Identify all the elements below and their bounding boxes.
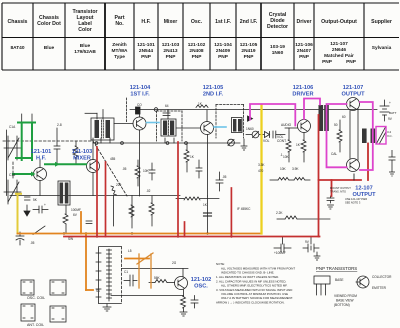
capacitor C13 [204, 212, 212, 214]
svg-text:2N408: 2N408 [189, 48, 203, 54]
svg-text:BASE: BASE [335, 278, 344, 282]
tone network right edge [391, 150, 393, 157]
svg-text:USE 121-107 PAIR: USE 121-107 PAIR [345, 197, 367, 201]
speaker SP1 magenta box [376, 127, 386, 145]
capacitor C8 small [86, 220, 92, 222]
wire magenta 2nd IF collector loop [250, 104, 295, 126]
wire Q8 emitter down + resistor R4 [183, 290, 185, 297]
svg-text:Driver: Driver [297, 19, 312, 25]
svg-text:Supplier: Supplier [371, 19, 392, 25]
dashed shield T2 [157, 111, 183, 141]
switch S2 on-off [33, 226, 45, 235]
svg-text:121-105: 121-105 [203, 85, 224, 91]
svg-text:2-8: 2-8 [57, 123, 62, 127]
svg-text:Color Dot: Color Dot [37, 21, 61, 27]
svg-text:455: 455 [110, 157, 116, 161]
wire T2 secondary to Q4 base [176, 127, 201, 129]
svg-text:121-103: 121-103 [72, 149, 93, 155]
svg-text:ALL OTHERS MMF. ELECTROLYTICS: ALL OTHERS MMF. ELECTROLYTICS NOTED MF. [221, 284, 288, 288]
svg-text:+: + [389, 101, 391, 105]
svg-text:PNP: PNP [218, 54, 229, 60]
wire green antenna to Q1 base [13, 164, 86, 174]
svg-text:1N60: 1N60 [272, 50, 284, 56]
detector diode CR1 [265, 132, 270, 138]
svg-text:10K: 10K [283, 155, 290, 159]
node dots on rails [63, 232, 233, 237]
resistor R2 diagonal near mixer [111, 186, 117, 195]
svg-text:Type: Type [114, 54, 125, 60]
capacitor C20 [129, 275, 131, 286]
transformer T3 3rd IF [232, 118, 243, 133]
svg-text:OUTPUT: OUTPUT [342, 92, 366, 98]
svg-text:AUDIO: AUDIO [281, 123, 292, 127]
svg-text:121-104: 121-104 [130, 85, 151, 91]
battery B1 9V [380, 100, 389, 121]
svg-text:Matched Pair: Matched Pair [324, 53, 354, 59]
wire Q3 emitter down [139, 130, 141, 196]
wire yellow B+ long vertical [260, 105, 262, 234]
cyan neutralizing arrows [147, 123, 227, 128]
wire misc left verticals [65, 205, 67, 214]
svg-text:MOUNT OUTPUT: MOUNT OUTPUT [330, 186, 351, 190]
svg-text:BATT: BATT [389, 111, 397, 115]
tuning gang C1B [4, 180, 21, 204]
resistor R8 vertical [184, 150, 189, 162]
svg-text:+100MF: +100MF [274, 251, 286, 255]
pin box IF bottom view 3 [21, 304, 35, 321]
svg-text:INDICATED TO CHASSIS GND. B- L: INDICATED TO CHASSIS GND. B- LINE. [221, 271, 275, 275]
svg-text:470: 470 [258, 169, 264, 173]
svg-text:MT/WA: MT/WA [112, 48, 129, 54]
svg-text:PNP TRANSISTORS: PNP TRANSISTORS [316, 266, 357, 271]
svg-text:.02: .02 [146, 189, 151, 193]
transistor Q4 2nd I.F. [201, 122, 214, 135]
svg-text:60: 60 [342, 115, 346, 119]
transistor Q3 1st I.F. [133, 117, 146, 130]
svg-text:2N407: 2N407 [297, 48, 311, 54]
svg-text:SW: SW [68, 237, 73, 241]
electrolytic C6 plus [33, 206, 48, 213]
wire AVC rail [93, 142, 240, 144]
oscillator coil orange [137, 253, 153, 288]
svg-text:No.: No. [115, 21, 124, 27]
pin box IF bottom view 4 [50, 306, 66, 322]
diode circle symbol [228, 139, 235, 146]
svg-text:10K: 10K [280, 167, 287, 171]
svg-text:C1A: C1A [9, 125, 16, 129]
svg-text:VOL: VOL [263, 139, 270, 143]
electrolytic C5 left [16, 232, 24, 245]
svg-text:ARROW ( → ) INDICATES CLOCKW: ARROW ( → ) INDICATES CLOCKWISE ROTATION… [216, 301, 285, 305]
transistor Q7 Output lower [347, 159, 360, 172]
svg-text:PNP: PNP [299, 54, 310, 60]
svg-text:121-103: 121-103 [162, 42, 180, 48]
capacitor C7 at Q3 collector [136, 107, 141, 114]
transistor Q8 Osc [175, 277, 188, 290]
ground under C17 [314, 252, 320, 260]
svg-text:1st I.F.: 1st I.F. [215, 19, 231, 25]
svg-text:ONLY A 9V BATTERY SOURCE FOR M: ONLY A 9V BATTERY SOURCE FOR MEASUREMENT… [221, 296, 293, 300]
svg-text:2ND I.F.: 2ND I.F. [203, 92, 224, 98]
svg-text:Osc.: Osc. [191, 19, 203, 25]
svg-text:3.9K: 3.9K [292, 167, 299, 171]
svg-text:Zenith: Zenith [112, 42, 126, 48]
svg-text:H.F.: H.F. [36, 156, 46, 162]
wire red emitter rail [64, 115, 368, 237]
svg-text:1. ALL RESISTORS 1/2 WATT UNL: 1. ALL RESISTORS 1/2 WATT UNLESS NOTED. [216, 275, 279, 279]
resistor R11 vertical driver bias [286, 140, 291, 152]
resistor chain R16 R17 at y 180 [278, 177, 289, 180]
svg-text:121-107: 121-107 [330, 41, 348, 47]
node on rail [154, 108, 158, 112]
svg-text:121-106: 121-106 [295, 42, 313, 48]
svg-text:2nd I.F.: 2nd I.F. [240, 19, 258, 25]
svg-text:3.3K: 3.3K [258, 163, 265, 167]
svg-text:COLLECTOR: COLLECTOR [372, 275, 392, 279]
wire output stage verticals [349, 111, 351, 159]
svg-text:OSC. COIL: OSC. COIL [27, 296, 45, 300]
dashed gang link [3, 141, 127, 196]
transformer T4 driver [319, 105, 329, 131]
wire orange B+ rail [18, 212, 262, 290]
node junctions on AVC rail [95, 142, 98, 145]
svg-text:OSC.: OSC. [194, 284, 208, 290]
capacitor C21 [191, 299, 198, 301]
wire Q3/T1 tops to rail [102, 110, 104, 120]
antenna coil L1 green [16, 123, 35, 161]
svg-text:.05: .05 [30, 241, 35, 245]
svg-text:PNP: PNP [192, 54, 203, 60]
svg-text:121-101: 121-101 [31, 149, 52, 155]
speaker SP1 diagonals [377, 127, 386, 144]
svg-text:MIXER: MIXER [73, 156, 91, 162]
resistor R3 horizontal to Q8 base [155, 280, 167, 283]
pin box IF bottom view 1 [21, 280, 34, 295]
COLORED WIRES [13, 99, 386, 291]
svg-text:L5: L5 [128, 249, 132, 253]
svg-text:S1: S1 [96, 289, 100, 293]
ground Q8 emitter [180, 312, 187, 316]
PNP legend package [314, 276, 330, 295]
svg-text:.05: .05 [122, 167, 127, 171]
resistor R1 vertical [75, 141, 77, 146]
svg-text:(BOTTOM): (BOTTOM) [334, 303, 350, 307]
wire Q2 emitter down [92, 173, 94, 196]
big coil L5 bottom-left box [96, 247, 121, 304]
svg-text:EMITTER: EMITTER [372, 286, 387, 290]
svg-text:1N60: 1N60 [246, 127, 254, 131]
transformer T1 1st IF [91, 118, 114, 140]
wire T1 secondary to Q3 base [114, 123, 133, 125]
capacitor C10 [196, 167, 202, 169]
wire Q1 collector up [39, 160, 41, 168]
wire top B- rail [130, 109, 377, 111]
AVC resistor R5 horizontal [184, 197, 200, 200]
transistor Q6 Output upper [347, 98, 360, 111]
wire left edge [5, 130, 7, 196]
svg-text:2N646: 2N646 [332, 47, 346, 53]
svg-text:TRANS. MTG: TRANS. MTG [330, 190, 346, 194]
svg-text:Color: Color [78, 27, 92, 33]
resistor R7 vertical [135, 166, 140, 178]
svg-text:2N544: 2N544 [139, 48, 153, 54]
PNP legend transistor symbol [357, 276, 369, 288]
svg-text:179/52AB: 179/52AB [74, 49, 96, 55]
coupling cap C14 [272, 131, 274, 138]
wire magenta driver collector [304, 99, 320, 120]
svg-text:NOTE:: NOTE: [216, 262, 225, 266]
svg-text:8AT40: 8AT40 [10, 45, 24, 51]
svg-text:C1: C1 [124, 270, 128, 274]
svg-text:PNP: PNP [322, 59, 333, 65]
svg-text:220: 220 [116, 183, 122, 187]
antenna stub [21, 114, 23, 122]
svg-text:Chassis: Chassis [8, 19, 28, 25]
resistor R6 vertical mid band [129, 205, 134, 217]
svg-text:+: + [44, 203, 46, 207]
wire Q4 emitter to B+ rail [207, 196, 209, 234]
battery icon C17 [303, 244, 319, 252]
svg-text:100MF: 100MF [71, 208, 81, 212]
svg-text:DRIVER: DRIVER [292, 92, 313, 98]
capacitor C18 under output [327, 197, 334, 199]
svg-text:121-107: 121-107 [343, 85, 364, 91]
capacitor C12 AVC [216, 179, 223, 181]
svg-text:Blue: Blue [80, 43, 91, 49]
svg-text:ANT. COIL: ANT. COIL [27, 323, 44, 327]
svg-text:BASE VIEW: BASE VIEW [336, 299, 354, 303]
wire Q5 base [285, 127, 298, 129]
wire T1 bottom pins [100, 138, 102, 143]
diode arrow under magenta leg [248, 116, 253, 121]
svg-text:PNP: PNP [166, 54, 177, 60]
thermistor R15 [337, 130, 342, 142]
LEGEND TEXT [27, 111, 397, 327]
capacitor C9 [149, 169, 155, 171]
svg-text:2N413: 2N413 [163, 48, 177, 54]
svg-text:50: 50 [334, 123, 338, 127]
svg-text:SEE NOTE 3: SEE NOTE 3 [345, 201, 361, 205]
SMALL ANNOTATIONS [9, 101, 393, 293]
resistor small above Q4 [196, 105, 208, 108]
svg-text:121-106: 121-106 [293, 85, 314, 91]
chassis arrow ground [24, 211, 30, 216]
capacitor C4 [25, 196, 31, 198]
dashed shield T3 [216, 105, 244, 139]
wire Q5 emitter down w/ resistor R12 [303, 133, 305, 141]
svg-text:56K: 56K [154, 276, 161, 280]
NOTES BLOCK [216, 262, 295, 305]
svg-text:Sylvania: Sylvania [372, 45, 392, 51]
svg-text:CONT.: CONT. [277, 139, 287, 143]
TABLE [2, 3, 399, 70]
svg-text:121-102: 121-102 [191, 277, 212, 283]
svg-text:CO: CO [137, 103, 142, 107]
svg-text:103-19: 103-19 [270, 44, 285, 50]
wire yellow B+ left drop [16, 194, 21, 234]
resistor R14 2.2K [285, 216, 297, 219]
svg-text:2N419: 2N419 [241, 48, 255, 54]
ground below L5 [103, 304, 111, 311]
wire osc row horizontals [121, 268, 188, 270]
wire T2 bottom pins [164, 138, 166, 143]
wire T1 top feed [85, 112, 97, 114]
svg-text:C1B: C1B [9, 173, 15, 177]
svg-text:12-107: 12-107 [355, 186, 372, 192]
svg-text:121-102: 121-102 [188, 42, 206, 48]
svg-text:2G: 2G [172, 261, 177, 265]
resistor R9 vertical mid band [149, 203, 154, 215]
svg-text:.05: .05 [222, 175, 227, 179]
ground below detector [241, 139, 247, 150]
svg-text:VIEWED FROM: VIEWED FROM [334, 294, 357, 298]
coil L2 osc pickup [58, 181, 70, 205]
svg-text:2.2K: 2.2K [276, 211, 283, 215]
transistor Q2 Mixer [87, 160, 100, 173]
svg-text:Mixer: Mixer [164, 19, 178, 25]
svg-text:1ST I.F.: 1ST I.F. [130, 92, 150, 98]
svg-text:.1: .1 [280, 153, 283, 157]
svg-text:PNP: PNP [346, 59, 357, 65]
svg-text:CAL: CAL [331, 152, 337, 156]
transformer T2 2nd IF [161, 119, 176, 136]
svg-text:H.F.: H.F. [141, 19, 151, 25]
svg-text:Output-Output: Output-Output [321, 19, 357, 25]
svg-text:PNP: PNP [141, 54, 152, 60]
wire magenta output loop [327, 102, 373, 170]
svg-text:121-104: 121-104 [214, 42, 232, 48]
svg-text:IF 455KC: IF 455KC [237, 207, 251, 211]
tuning gang C1A [4, 136, 21, 160]
svg-text:10K: 10K [143, 169, 150, 173]
transistor Q1 H.F. [34, 168, 47, 181]
wire Q2 collector up to T1 [92, 138, 94, 160]
transformer T5 output [362, 129, 375, 144]
svg-text:121-101: 121-101 [137, 42, 155, 48]
svg-text:Detector: Detector [267, 24, 288, 30]
svg-text:Blue: Blue [44, 45, 55, 51]
svg-text:V.C.: V.C. [387, 134, 393, 138]
svg-text:PNP: PNP [244, 54, 255, 60]
small caps above T2 [163, 112, 170, 114]
BLUE LABELS [31, 85, 376, 290]
pin box IF bottom view 2 [50, 280, 66, 295]
volume control VR1 [252, 131, 259, 138]
dashed shield line [126, 98, 128, 122]
wire detector to volume [246, 134, 252, 136]
wire front-end bottom rail [10, 195, 180, 197]
electrolytic C16 [274, 244, 291, 252]
transistor Q5 Driver [298, 120, 311, 133]
capacitor C3 between coil and T1 [56, 128, 58, 146]
wire Q8 collector up [182, 269, 184, 278]
wire red AVC verticals left [97, 142, 231, 237]
wire mid verticals down to rails [131, 196, 133, 229]
svg-text:121-105: 121-105 [240, 42, 258, 48]
wire Q4 emitter down [207, 135, 209, 197]
svg-text:64: 64 [165, 104, 169, 108]
svg-text:2N409: 2N409 [216, 48, 230, 54]
